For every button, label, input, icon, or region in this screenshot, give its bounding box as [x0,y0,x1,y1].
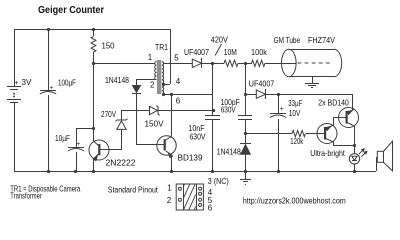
svg-text:3 (NC): 3 (NC) [208,177,229,186]
svg-text:Standard Pinout: Standard Pinout [108,185,159,194]
svg-text:http://uzzors2k.000webhost.com: http://uzzors2k.000webhost.com [243,197,346,206]
svg-text:2: 2 [167,196,172,205]
svg-text:33µF: 33µF [288,99,302,108]
svg-text:150V: 150V [145,120,165,129]
svg-text:2x BD140: 2x BD140 [318,98,349,107]
svg-text:BD139: BD139 [178,153,204,162]
svg-text:+: + [280,106,284,113]
svg-text:1: 1 [167,184,172,193]
svg-text:10µF: 10µF [55,134,70,143]
svg-text:FHZ74V: FHZ74V [308,36,336,45]
svg-text:1N4148: 1N4148 [105,76,129,85]
svg-text:+: + [77,141,81,148]
svg-text:UF4007: UF4007 [184,48,209,57]
svg-text:120k: 120k [290,137,304,146]
svg-text:4: 4 [176,77,181,86]
svg-text:100µF: 100µF [58,78,76,87]
svg-text:270V: 270V [101,110,117,119]
svg-text:GM Tube: GM Tube [274,36,301,45]
svg-text:630V: 630V [190,133,207,142]
svg-text:420V: 420V [211,36,229,45]
svg-text:Geiger Counter: Geiger Counter [38,4,104,16]
svg-text:6: 6 [208,203,213,212]
svg-text:Ultra-bright: Ultra-bright [310,149,345,158]
svg-text:630V: 630V [221,105,237,114]
svg-text:10M: 10M [224,48,237,57]
svg-text:1: 1 [148,53,153,62]
svg-text:100k: 100k [251,48,268,57]
svg-text:6: 6 [176,96,181,105]
svg-text:Transformer: Transformer [10,191,42,200]
svg-text:+: + [50,84,54,91]
svg-text:UF4007: UF4007 [249,80,275,89]
svg-text:TR1: TR1 [155,43,168,52]
svg-text:150: 150 [102,42,116,51]
svg-text:10V: 10V [289,109,301,118]
svg-text:3V: 3V [22,78,32,87]
svg-text:5: 5 [174,54,179,63]
svg-text:1N4148: 1N4148 [217,148,241,157]
svg-text:+: + [14,80,18,87]
svg-text:2: 2 [150,81,155,90]
svg-text:2N2222: 2N2222 [106,158,137,167]
